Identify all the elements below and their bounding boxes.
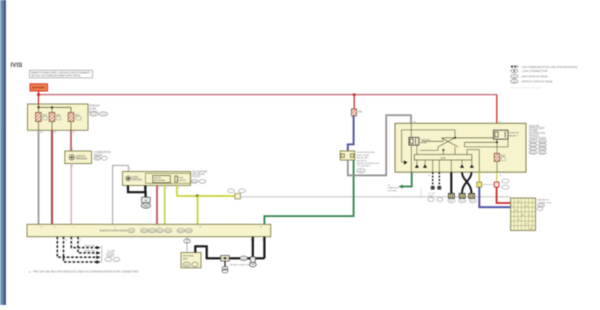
svg-text:SECTION, FOR COMPLETE POWER SU: SECTION, FOR COMPLETE POWER SUPPLY DETAI…	[31, 74, 81, 77]
svg-text:DATA LINE: DATA LINE	[84, 244, 95, 247]
svg-text:: WITHOUT STATE OF TAHOE: : WITHOUT STATE OF TAHOE	[521, 80, 553, 83]
svg-text:GROUND: GROUND	[132, 180, 143, 182]
svg-text:: CAN CONNECTOR: : CAN CONNECTOR	[521, 70, 548, 73]
svg-text:CPU: CPU	[441, 157, 446, 160]
svg-text:M304: M304	[166, 231, 172, 233]
svg-text:TOOTH: TOOTH	[192, 177, 200, 179]
svg-text:SYSTEM: SYSTEM	[388, 190, 397, 192]
svg-text:M302: M302	[149, 231, 155, 233]
svg-text:BREAKER: BREAKER	[76, 158, 87, 161]
svg-text:AUDIO: AUDIO	[154, 177, 161, 180]
svg-text:15A: 15A	[358, 110, 363, 113]
svg-text:M301: M301	[142, 231, 148, 233]
svg-text:MODELS): MODELS)	[357, 160, 367, 162]
svg-text:HIGH PRESSURE: HIGH PRESSURE	[357, 152, 376, 154]
svg-text:MA-IVIS-01 WIRING DIAGRAM: MA-IVIS-01 WIRING DIAGRAM	[510, 87, 541, 90]
svg-text:TO: TO	[388, 185, 391, 187]
svg-text:CASE: CASE	[132, 176, 139, 179]
svg-text:RELAY: RELAY	[420, 141, 428, 144]
svg-text:DATA LINE: DATA LINE	[84, 250, 95, 253]
svg-text:FUEL PUMP: FUEL PUMP	[357, 155, 370, 157]
svg-text:IVIS: IVIS	[11, 63, 23, 69]
svg-text:CVT MODEL): CVT MODEL)	[357, 166, 371, 168]
svg-text:IGNITION: IGNITION	[509, 133, 519, 135]
svg-text:(CAN): (CAN)	[428, 194, 434, 197]
svg-text:STARTING: STARTING	[388, 187, 399, 190]
svg-text:DIAGNOSIS: DIAGNOSIS	[537, 199, 550, 202]
svg-text:M61: M61	[450, 201, 454, 203]
svg-text:M305: M305	[178, 231, 184, 233]
svg-text:MUTE: MUTE	[180, 180, 187, 182]
svg-text:▲ : THIS UNIT MAY BE A GPS MOD: ▲ : THIS UNIT MAY BE A GPS MODULE IS USE…	[29, 271, 139, 274]
svg-text:RELAY 2: RELAY 2	[509, 134, 519, 137]
svg-text:TEL ADAPTER: TEL ADAPTER	[192, 171, 208, 174]
svg-text:REFER TO POWER SUPPLY, GROUND: REFER TO POWER SUPPLY, GROUND & CIRCUIT …	[31, 72, 90, 74]
svg-text:ANTENNA: ANTENNA	[183, 255, 194, 258]
svg-text:CAN: CAN	[108, 254, 113, 257]
svg-text:M306: M306	[186, 231, 192, 233]
svg-text:BLUETOOTH CONTROL MODULE: BLUETOOTH CONTROL MODULE	[100, 229, 128, 233]
svg-text:E124: E124	[101, 114, 107, 116]
svg-text:GROUND CONNECTOR: GROUND CONNECTOR	[230, 264, 250, 266]
svg-text:ANTENNA: ANTENNA	[154, 179, 165, 182]
svg-text:AMP: AMP	[183, 257, 188, 260]
svg-text:M158: M158	[460, 201, 465, 203]
svg-text:BATTERY: BATTERY	[32, 86, 45, 90]
svg-text:IGNITION: IGNITION	[420, 140, 430, 142]
svg-text:: CAN COMMUNICATION LINE (FOR: : CAN COMMUNICATION LINE (FOR DIAGNOSIS)	[521, 66, 578, 69]
svg-text:: WITH STATE OF TAHOE: : WITH STATE OF TAHOE	[521, 76, 548, 79]
svg-text:RELAY (CONNECTOR: RELAY (CONNECTOR	[357, 162, 380, 165]
svg-text:E122: E122	[91, 114, 97, 116]
svg-text:CIRCUIT: CIRCUIT	[76, 156, 86, 158]
svg-text:TO LAN: TO LAN	[107, 250, 115, 253]
svg-text:M159: M159	[470, 201, 475, 203]
svg-text:M303: M303	[157, 231, 163, 233]
svg-text:RELAY (M/T: RELAY (M/T	[357, 157, 370, 160]
